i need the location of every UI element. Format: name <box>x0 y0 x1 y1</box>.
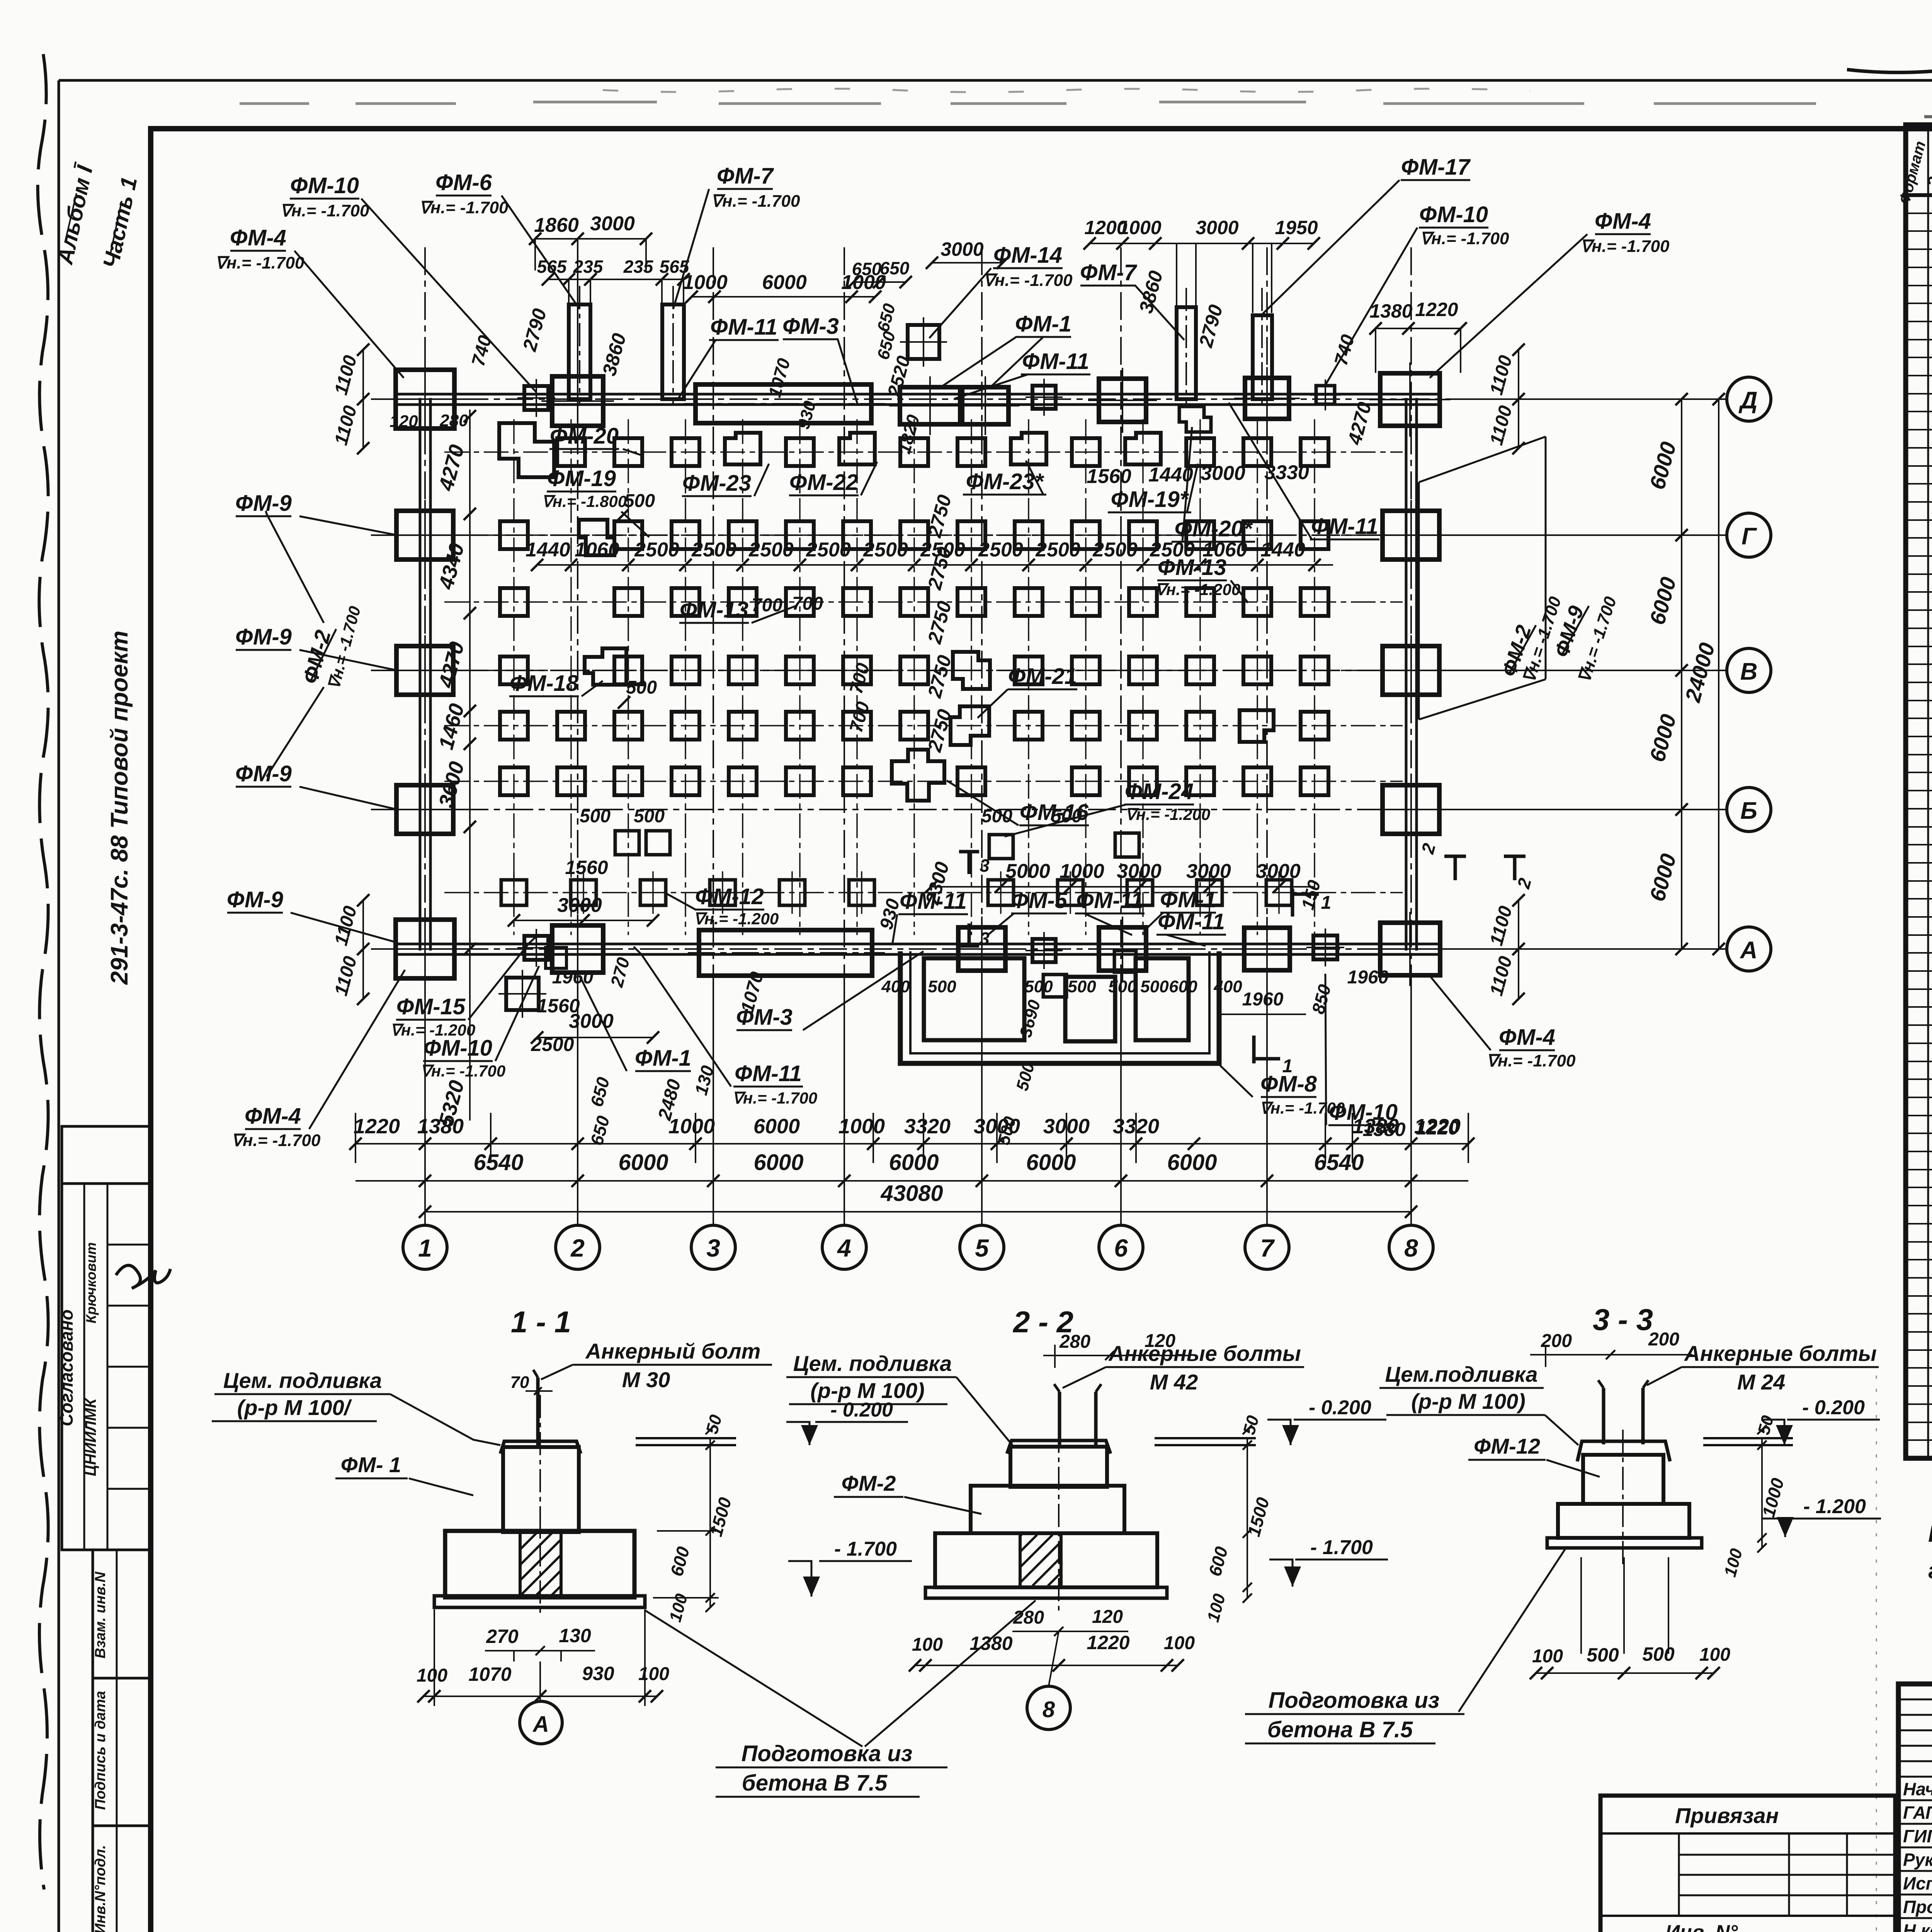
dimension chain row 2 axis spacing <box>355 1180 1468 1182</box>
svg-text:1000: 1000 <box>1118 217 1161 238</box>
svg-text:∇н.= -1.200: ∇н.= -1.200 <box>694 910 779 928</box>
svg-text:1 - 1: 1 - 1 <box>511 1305 571 1339</box>
foundation pad axis 6/Д <box>1099 379 1146 422</box>
svg-text:В: В <box>1740 658 1758 685</box>
svg-text:ФМ-6: ФМ-6 <box>435 170 492 195</box>
svg-text:100: 100 <box>1532 1646 1563 1667</box>
svg-text:650: 650 <box>852 259 882 279</box>
foundation ФМ-17 strip right B <box>1253 315 1272 399</box>
svg-text:∇н.= -1.200: ∇н.= -1.200 <box>1155 580 1240 599</box>
svg-text:7: 7 <box>1260 1234 1275 1262</box>
svg-text:3000: 3000 <box>1256 860 1301 883</box>
svg-text:ФМ-9: ФМ-9 <box>235 491 292 516</box>
svg-text:ФМ-19: ФМ-19 <box>547 466 616 491</box>
svg-text:ФМ-4: ФМ-4 <box>245 1104 301 1129</box>
section 1-1 hatched column <box>520 1531 561 1597</box>
svg-text:∇н.= -1.700: ∇н.= -1.700 <box>1420 229 1509 248</box>
svg-text:ФМ-9: ФМ-9 <box>227 887 283 912</box>
lone pad ФМ-15 below wall <box>506 978 539 1010</box>
svg-text:ФМ-7: ФМ-7 <box>717 163 774 189</box>
svg-text:2500: 2500 <box>748 539 794 561</box>
svg-text:6000: 6000 <box>1167 1150 1217 1175</box>
svg-text:ФМ-11: ФМ-11 <box>735 1061 802 1086</box>
svg-text:ФМ-11: ФМ-11 <box>1022 349 1089 374</box>
svg-text:∇н.= -1.700: ∇н.= -1.700 <box>420 1062 505 1080</box>
bath compartment 3 <box>1136 958 1189 1040</box>
bath small pad b <box>1114 951 1136 972</box>
svg-text:1220: 1220 <box>1416 1117 1459 1139</box>
svg-text:3: 3 <box>706 1234 720 1262</box>
svg-text:ФМ-11: ФМ-11 <box>1076 888 1143 913</box>
foundation ФМ-6 strip <box>569 304 590 399</box>
svg-text:ФМ-4: ФМ-4 <box>1499 1025 1555 1050</box>
interior pad row 1 <box>499 423 1328 477</box>
axis circles Д Г В Б А <box>1727 377 1771 971</box>
foundation ФМ-9 pad axis 1/В <box>396 646 453 695</box>
svg-text:3320: 3320 <box>1113 1115 1159 1138</box>
svg-text:Исполнил: Исполнил <box>1903 1873 1932 1893</box>
svg-text:ФМ-4: ФМ-4 <box>230 225 286 250</box>
section 3-3 dim leader lines below <box>1580 1557 1582 1654</box>
svg-text:ФМ-17: ФМ-17 <box>1401 155 1471 180</box>
foundation ФМ-3 long pad top <box>696 384 871 423</box>
svg-text:Все поверхности фундаментов: Все поверхности фундаментов , соприкасаю… <box>1928 1521 1932 1547</box>
svg-text:Подготовка из: Подготовка из <box>1269 1688 1440 1713</box>
svg-text:43080: 43080 <box>880 1181 943 1206</box>
title block signoff rows <box>1898 1799 1932 1801</box>
svg-text:∇н.= -1.700: ∇н.= -1.700 <box>983 271 1073 290</box>
svg-text:- 0.200: - 0.200 <box>1802 1396 1865 1419</box>
foundation ФМ-10 connector bottom right <box>1313 935 1337 959</box>
svg-text:500: 500 <box>580 806 611 827</box>
svg-text:∇н.= -1.800: ∇н.= -1.800 <box>542 492 627 510</box>
svg-text:100: 100 <box>1699 1645 1730 1665</box>
svg-text:ФМ-2: ФМ-2 <box>842 1471 896 1495</box>
svg-text:3000: 3000 <box>1196 217 1238 238</box>
section 2-2 step 2 footing <box>935 1533 1157 1587</box>
svg-text:2: 2 <box>570 1234 585 1262</box>
svg-text:280: 280 <box>439 411 468 430</box>
axis circles 1-8 <box>403 1225 1433 1269</box>
svg-text:1000: 1000 <box>668 1115 715 1138</box>
svg-text:(р-р М 100): (р-р М 100) <box>1411 1389 1526 1413</box>
small table Привязан grid <box>1679 1854 1895 1856</box>
svg-text:2500: 2500 <box>634 539 679 561</box>
foundation ФМ-7 strip right A <box>1177 307 1196 399</box>
foundation ФМ-9 pad axis 1/Г <box>396 511 453 560</box>
svg-text:Проверил: Проверил <box>1903 1897 1932 1917</box>
left dimension chain <box>469 410 471 1121</box>
section 2-2 base plate <box>925 1587 1167 1598</box>
svg-text:Нач.мас: Нач.мас <box>1903 1779 1932 1799</box>
top dim 3000 mid <box>932 262 1003 264</box>
svg-text:1960: 1960 <box>552 967 594 988</box>
svg-text:ФМ-23: ФМ-23 <box>682 471 751 496</box>
svg-text:Анкерные болты: Анкерные болты <box>1108 1341 1301 1366</box>
svg-text:6: 6 <box>1114 1234 1128 1262</box>
svg-text:1: 1 <box>1282 1056 1293 1077</box>
svg-text:ФМ-3: ФМ-3 <box>736 1005 793 1030</box>
svg-text:ФМ-11: ФМ-11 <box>900 889 967 914</box>
svg-text:500: 500 <box>624 491 655 511</box>
stamp section Взам.инв.N <box>93 1550 150 1678</box>
svg-text:ФМ-22: ФМ-22 <box>789 470 858 495</box>
svg-text:ФМ-5: ФМ-5 <box>1011 888 1068 913</box>
interior pad row 7 sparse <box>501 871 1292 914</box>
section 1-1 axis circle А <box>520 1701 562 1744</box>
svg-text:3 - 3: 3 - 3 <box>1593 1303 1653 1337</box>
svg-text:400: 400 <box>1213 977 1242 996</box>
svg-text:1000: 1000 <box>838 1115 885 1138</box>
section 3-3 pedestal <box>1583 1455 1663 1504</box>
svg-text:280: 280 <box>1059 1332 1090 1352</box>
svg-text:3000: 3000 <box>590 213 635 235</box>
svg-text:Б: Б <box>1740 798 1757 824</box>
axis grid dash-dot verticals <box>425 247 1411 1226</box>
svg-text:6000: 6000 <box>753 1115 800 1138</box>
svg-text:М 42: М 42 <box>1150 1370 1198 1394</box>
svg-text:1380: 1380 <box>1369 300 1412 322</box>
svg-text:Г: Г <box>1742 523 1757 550</box>
section 3-3 dim chain 100 500 500 100 <box>1536 1672 1714 1674</box>
section 2-2 ground level lines <box>1155 1437 1256 1439</box>
svg-text:1560: 1560 <box>1087 465 1131 488</box>
svg-text:3000: 3000 <box>1117 860 1162 883</box>
interior pad row 4 axis В <box>500 648 1328 689</box>
svg-text:ФМ-1: ФМ-1 <box>1015 311 1071 337</box>
top wall axis Д <box>398 393 1441 396</box>
right leader parallelogram <box>1419 437 1546 482</box>
foundation ФМ-9 pad axis 8/Б <box>1383 785 1439 834</box>
foundation ФМ-9 pad axis 1/Б <box>396 785 453 834</box>
parts table header row <box>1906 193 1932 197</box>
svg-text:3000: 3000 <box>1201 462 1245 485</box>
svg-text:1380: 1380 <box>969 1633 1012 1654</box>
section 1-1 vertical dims <box>709 1438 711 1607</box>
svg-text:(р-р М 100/: (р-р М 100/ <box>237 1395 352 1420</box>
stamp section Инв.N подл. <box>93 1826 150 1932</box>
foundation ФМ-11 connector bottom mid <box>1032 939 1056 962</box>
bath compartment 2 <box>1065 977 1115 1041</box>
foundation pad axis 7/Д <box>1245 378 1289 419</box>
svg-text:5000: 5000 <box>1005 860 1050 883</box>
foundation ФМ-10 connector pad top <box>524 386 548 410</box>
parts table outer frame <box>1906 125 1932 1458</box>
svg-text:5: 5 <box>975 1234 989 1262</box>
svg-text:- 1.700: - 1.700 <box>834 1538 897 1560</box>
foundation ФМ-14 pad <box>908 325 939 359</box>
bottom wall axis А <box>398 943 1441 946</box>
svg-text:грунтом , обмазать горячим б: грунтом , обмазать горячим битумом за 2р… <box>1928 1558 1932 1583</box>
svg-text:8: 8 <box>1404 1234 1418 1262</box>
svg-text:ФМ-12: ФМ-12 <box>1474 1434 1540 1458</box>
interior dim row 2500s <box>537 564 1333 566</box>
svg-text:6540: 6540 <box>473 1150 523 1175</box>
dimension chain row 1 below plan <box>355 1143 1468 1145</box>
extension lines to bottom dims <box>355 981 1468 1226</box>
axis grid dash-dot horizontals <box>371 399 1726 949</box>
bath foundation ФМ-8 outer wall <box>900 951 1219 1063</box>
parts table column lines <box>1927 125 1929 1458</box>
foundation ФМ-10 connector mid top <box>1032 386 1056 409</box>
svg-text:Подготовка из: Подготовка из <box>742 1741 913 1766</box>
svg-text:бетона В 7.5: бетона В 7.5 <box>742 1770 888 1796</box>
svg-text:70: 70 <box>510 1373 529 1392</box>
svg-text:500: 500 <box>981 806 1012 827</box>
section 3-3 footing <box>1558 1504 1689 1538</box>
interior pad row 2 axis Г <box>500 520 1328 555</box>
svg-text:2500: 2500 <box>978 539 1023 561</box>
svg-text:ФМ-24: ФМ-24 <box>1125 779 1194 804</box>
stamp box top <box>62 1126 150 1184</box>
svg-text:120: 120 <box>1092 1607 1123 1627</box>
svg-text:∇н.= -1.700: ∇н.= -1.700 <box>231 1131 321 1150</box>
stamp section Подпись и дата <box>93 1678 150 1826</box>
left corner dims 1100 <box>362 350 364 448</box>
svg-text:Инв.N°подл.: Инв.N°подл. <box>92 1845 109 1932</box>
foundation ФМ-1 pad axis 5/Д <box>962 387 1009 424</box>
paired pads 500x500 left <box>615 831 639 855</box>
foundation ФМ-10 connector bottom left <box>524 936 548 960</box>
svg-text:2500: 2500 <box>691 539 736 561</box>
svg-text:3320: 3320 <box>904 1115 951 1138</box>
svg-text:ГИП: ГИП <box>1903 1826 1932 1846</box>
section 2-2 step 1 <box>971 1486 1124 1533</box>
svg-text:М 24: М 24 <box>1737 1370 1786 1394</box>
svg-text:650: 650 <box>880 258 910 278</box>
section 1-1 footing <box>445 1531 634 1597</box>
svg-text:1560: 1560 <box>537 995 580 1017</box>
svg-text:130: 130 <box>559 1625 591 1646</box>
svg-text:ФМ- 1: ФМ- 1 <box>341 1452 401 1477</box>
foundation pad axis 6/А <box>1099 927 1146 971</box>
stamp section Согласовано <box>62 1184 150 1550</box>
torn top paper edge <box>603 88 1530 92</box>
svg-text:500: 500 <box>928 977 956 996</box>
top dims 650 650 <box>854 281 906 283</box>
svg-text:А: А <box>1740 937 1758 964</box>
stamp signature squiggle <box>116 1265 170 1288</box>
svg-text:1060: 1060 <box>575 539 619 561</box>
svg-text:Подпись и дата: Подпись и дата <box>92 1691 109 1810</box>
foundation ФМ-4 corner pad axis 8/А <box>1380 923 1440 975</box>
svg-text:- 0.200: - 0.200 <box>1309 1396 1371 1419</box>
section 1-1 dim chain 100 1070 930 100 <box>423 1696 657 1697</box>
svg-text:ГАП: ГАП <box>1903 1803 1932 1823</box>
svg-text:280: 280 <box>1013 1607 1044 1628</box>
svg-text:∇н.= -1.700: ∇н.= -1.700 <box>280 201 369 220</box>
svg-text:ФМ-13: ФМ-13 <box>1158 555 1226 580</box>
foundation ФМ-9 pad axis 8/Г <box>1383 511 1439 560</box>
svg-text:ФМ-10: ФМ-10 <box>290 173 359 198</box>
scanner smudge line <box>240 102 1816 104</box>
svg-text:6000: 6000 <box>889 1150 939 1175</box>
svg-text:6000: 6000 <box>762 271 807 294</box>
section 1-1 anchor bolt <box>536 1378 540 1448</box>
foundation ФМ-2 pad axis 8/В <box>1383 646 1439 695</box>
svg-text:ФМ-21: ФМ-21 <box>1008 664 1077 689</box>
svg-text:1220: 1220 <box>354 1115 400 1138</box>
svg-text:1960: 1960 <box>1347 967 1389 988</box>
svg-text:ФМ-10: ФМ-10 <box>1329 1100 1398 1125</box>
interior pad row 6 <box>500 750 1328 801</box>
foundation ФМ-1 pad 4-5/Д <box>900 387 960 424</box>
small table Привязан <box>1600 1796 1895 1932</box>
svg-text:Цем. подливка: Цем. подливка <box>223 1368 382 1393</box>
svg-text:700: 700 <box>792 594 823 614</box>
svg-text:ФМ-11: ФМ-11 <box>1158 909 1225 934</box>
svg-text:100: 100 <box>912 1634 943 1655</box>
section 1-1 pedestal <box>503 1447 579 1532</box>
svg-text:∇н.= -1.700: ∇н.= -1.700 <box>711 192 800 211</box>
small pad below-left 650 <box>546 947 566 968</box>
svg-text:Н.контр: Н.контр <box>1903 1920 1932 1932</box>
interior column center lines <box>514 419 1315 935</box>
interior row center lines <box>444 452 1403 893</box>
svg-text:ФМ-7: ФМ-7 <box>1080 260 1138 285</box>
svg-text:Цем.подливка: Цем.подливка <box>1385 1362 1537 1386</box>
svg-text:100: 100 <box>1164 1633 1195 1653</box>
scan fold dotted line <box>1876 1376 1877 1932</box>
svg-text:400: 400 <box>881 977 910 996</box>
section 3-3 base plate <box>1547 1538 1702 1548</box>
svg-text:2500: 2500 <box>531 1034 574 1055</box>
svg-text:ФМ-9: ФМ-9 <box>235 624 292 650</box>
foundation ФМ-7 strip left <box>662 304 684 399</box>
svg-text:4: 4 <box>837 1234 851 1262</box>
svg-text:600: 600 <box>1169 977 1197 996</box>
section 2-2 anchor bolts <box>1058 1392 1061 1447</box>
svg-text:ФМ-10: ФМ-10 <box>423 1036 492 1061</box>
svg-text:500: 500 <box>1068 977 1096 996</box>
bath small pad a <box>1043 975 1066 997</box>
svg-text:3: 3 <box>980 855 990 876</box>
svg-text:2500: 2500 <box>806 539 851 561</box>
svg-text:3000: 3000 <box>1043 1115 1090 1138</box>
section 2-2 axis circle 8 <box>1027 1686 1070 1730</box>
svg-text:Согласовано: Согласовано <box>56 1310 77 1426</box>
svg-text:Д: Д <box>1738 387 1758 414</box>
foundation ФМ-4 corner pad axis 1/А <box>396 920 454 978</box>
section 3-3 vertical dims <box>1761 1438 1763 1548</box>
svg-text:2500: 2500 <box>1092 539 1138 561</box>
left wall axis 1 <box>419 398 422 951</box>
svg-text:6540: 6540 <box>1314 1150 1364 1175</box>
parts table fine row grid left columns <box>1906 195 1932 1440</box>
svg-text:1070: 1070 <box>468 1663 511 1685</box>
svg-text:- 1.200: - 1.200 <box>1803 1495 1866 1518</box>
right corner dims 1100 <box>1518 350 1519 448</box>
foundation ФМ-11 connector right top <box>1316 386 1335 404</box>
svg-text:500: 500 <box>1140 977 1169 996</box>
top dims 1000 6000 1000 <box>692 296 875 298</box>
section 2-2 pedestal <box>1010 1447 1107 1487</box>
svg-text:ФМ-11: ФМ-11 <box>1311 514 1378 539</box>
svg-text:Анкерные болты: Анкерные болты <box>1684 1341 1877 1366</box>
top dims 1380 1220 right corner <box>1376 328 1461 329</box>
svg-text:ФМ-15: ФМ-15 <box>396 994 466 1019</box>
section 3-3 ground level lines <box>1703 1437 1793 1439</box>
svg-text:ФМ-18: ФМ-18 <box>510 671 579 696</box>
svg-text:270: 270 <box>486 1626 519 1647</box>
foundation ФМ-4 corner pad axis 8/Д <box>1380 373 1440 426</box>
torn left paper edge <box>38 54 48 1889</box>
svg-text:500: 500 <box>1024 977 1053 996</box>
svg-text:500: 500 <box>1108 977 1137 996</box>
svg-text:М 30: М 30 <box>622 1367 670 1392</box>
svg-text:ФМ-19*: ФМ-19* <box>1111 487 1189 512</box>
paired pads ФМ-24 <box>989 835 1013 859</box>
svg-text:500: 500 <box>626 677 657 698</box>
title block left thin rows <box>1898 1699 1932 1701</box>
svg-text:6000: 6000 <box>618 1150 668 1175</box>
svg-text:500: 500 <box>1587 1644 1619 1666</box>
svg-text:1960: 1960 <box>1242 989 1284 1010</box>
svg-text:Крючковит: Крючковит <box>83 1242 99 1323</box>
section 3-3 anchor bolts <box>1602 1388 1605 1444</box>
svg-text:6000: 6000 <box>1026 1150 1076 1175</box>
svg-text:1440: 1440 <box>526 539 570 561</box>
svg-text:930: 930 <box>582 1663 614 1684</box>
svg-text:ФМ-4: ФМ-4 <box>1595 209 1651 234</box>
svg-text:∇н.= -1.700: ∇н.= -1.700 <box>732 1089 817 1107</box>
svg-text:8: 8 <box>1043 1697 1055 1722</box>
extension lines to right dims <box>1445 399 1726 949</box>
svg-text:3000: 3000 <box>974 1115 1020 1138</box>
svg-text:291-3-47с. 88 Типовой проек: 291-3-47с. 88 Типовой проект <box>106 631 133 985</box>
svg-text:ЦНИИЛМК: ЦНИИЛМК <box>82 1398 99 1476</box>
svg-text:3000: 3000 <box>557 894 602 917</box>
svg-text:ФМ-14: ФМ-14 <box>993 243 1062 268</box>
foundation pad axis 7/А <box>1244 928 1290 970</box>
right dimension chain 6000s <box>1681 399 1682 949</box>
section 1-1 base plate <box>434 1596 645 1607</box>
svg-text:А: А <box>532 1712 549 1737</box>
svg-text:6000: 6000 <box>753 1150 803 1175</box>
svg-text:- 1.700: - 1.700 <box>1310 1536 1373 1559</box>
svg-text:100: 100 <box>638 1664 669 1684</box>
svg-text:1: 1 <box>418 1234 432 1262</box>
dimension chain row 3 total 43080 <box>425 1211 1411 1213</box>
svg-text:1220: 1220 <box>1415 299 1458 320</box>
main title block frame <box>1898 1684 1932 1932</box>
svg-text:3: 3 <box>980 929 990 949</box>
top dims 1860 3000 <box>535 238 646 240</box>
svg-text:ФМ-13: ФМ-13 <box>680 597 748 622</box>
foundation ФМ-1 pad axis 2/Д <box>552 376 603 426</box>
svg-text:ФМ-3: ФМ-3 <box>782 314 839 339</box>
section 1-1 ground level lines <box>636 1437 736 1439</box>
svg-text:235: 235 <box>623 257 654 277</box>
svg-text:120: 120 <box>389 412 418 431</box>
section 2-2 vertical dims <box>1247 1438 1248 1598</box>
interior pad row 3 <box>500 588 1328 616</box>
svg-text:(р-р М 100): (р-р М 100) <box>810 1378 925 1403</box>
svg-text:565: 565 <box>537 257 567 277</box>
svg-text:200: 200 <box>1648 1329 1679 1350</box>
svg-text:ФМ-16: ФМ-16 <box>1020 800 1089 825</box>
svg-text:ФМ-1: ФМ-1 <box>1160 887 1216 912</box>
svg-text:ФМ-9: ФМ-9 <box>235 761 292 786</box>
section 2-2 hatched column <box>1020 1533 1061 1587</box>
svg-text:100: 100 <box>417 1665 447 1686</box>
svg-text:Инв. N°: Инв. N° <box>1665 1921 1738 1932</box>
foundation ФМ-3 long pad bottom <box>699 930 872 976</box>
svg-text:Анкерный болт: Анкерный болт <box>585 1339 761 1363</box>
svg-text:500: 500 <box>634 806 665 827</box>
section cut marks <box>1293 889 1319 917</box>
svg-text:ФМ-1: ФМ-1 <box>635 1046 691 1071</box>
